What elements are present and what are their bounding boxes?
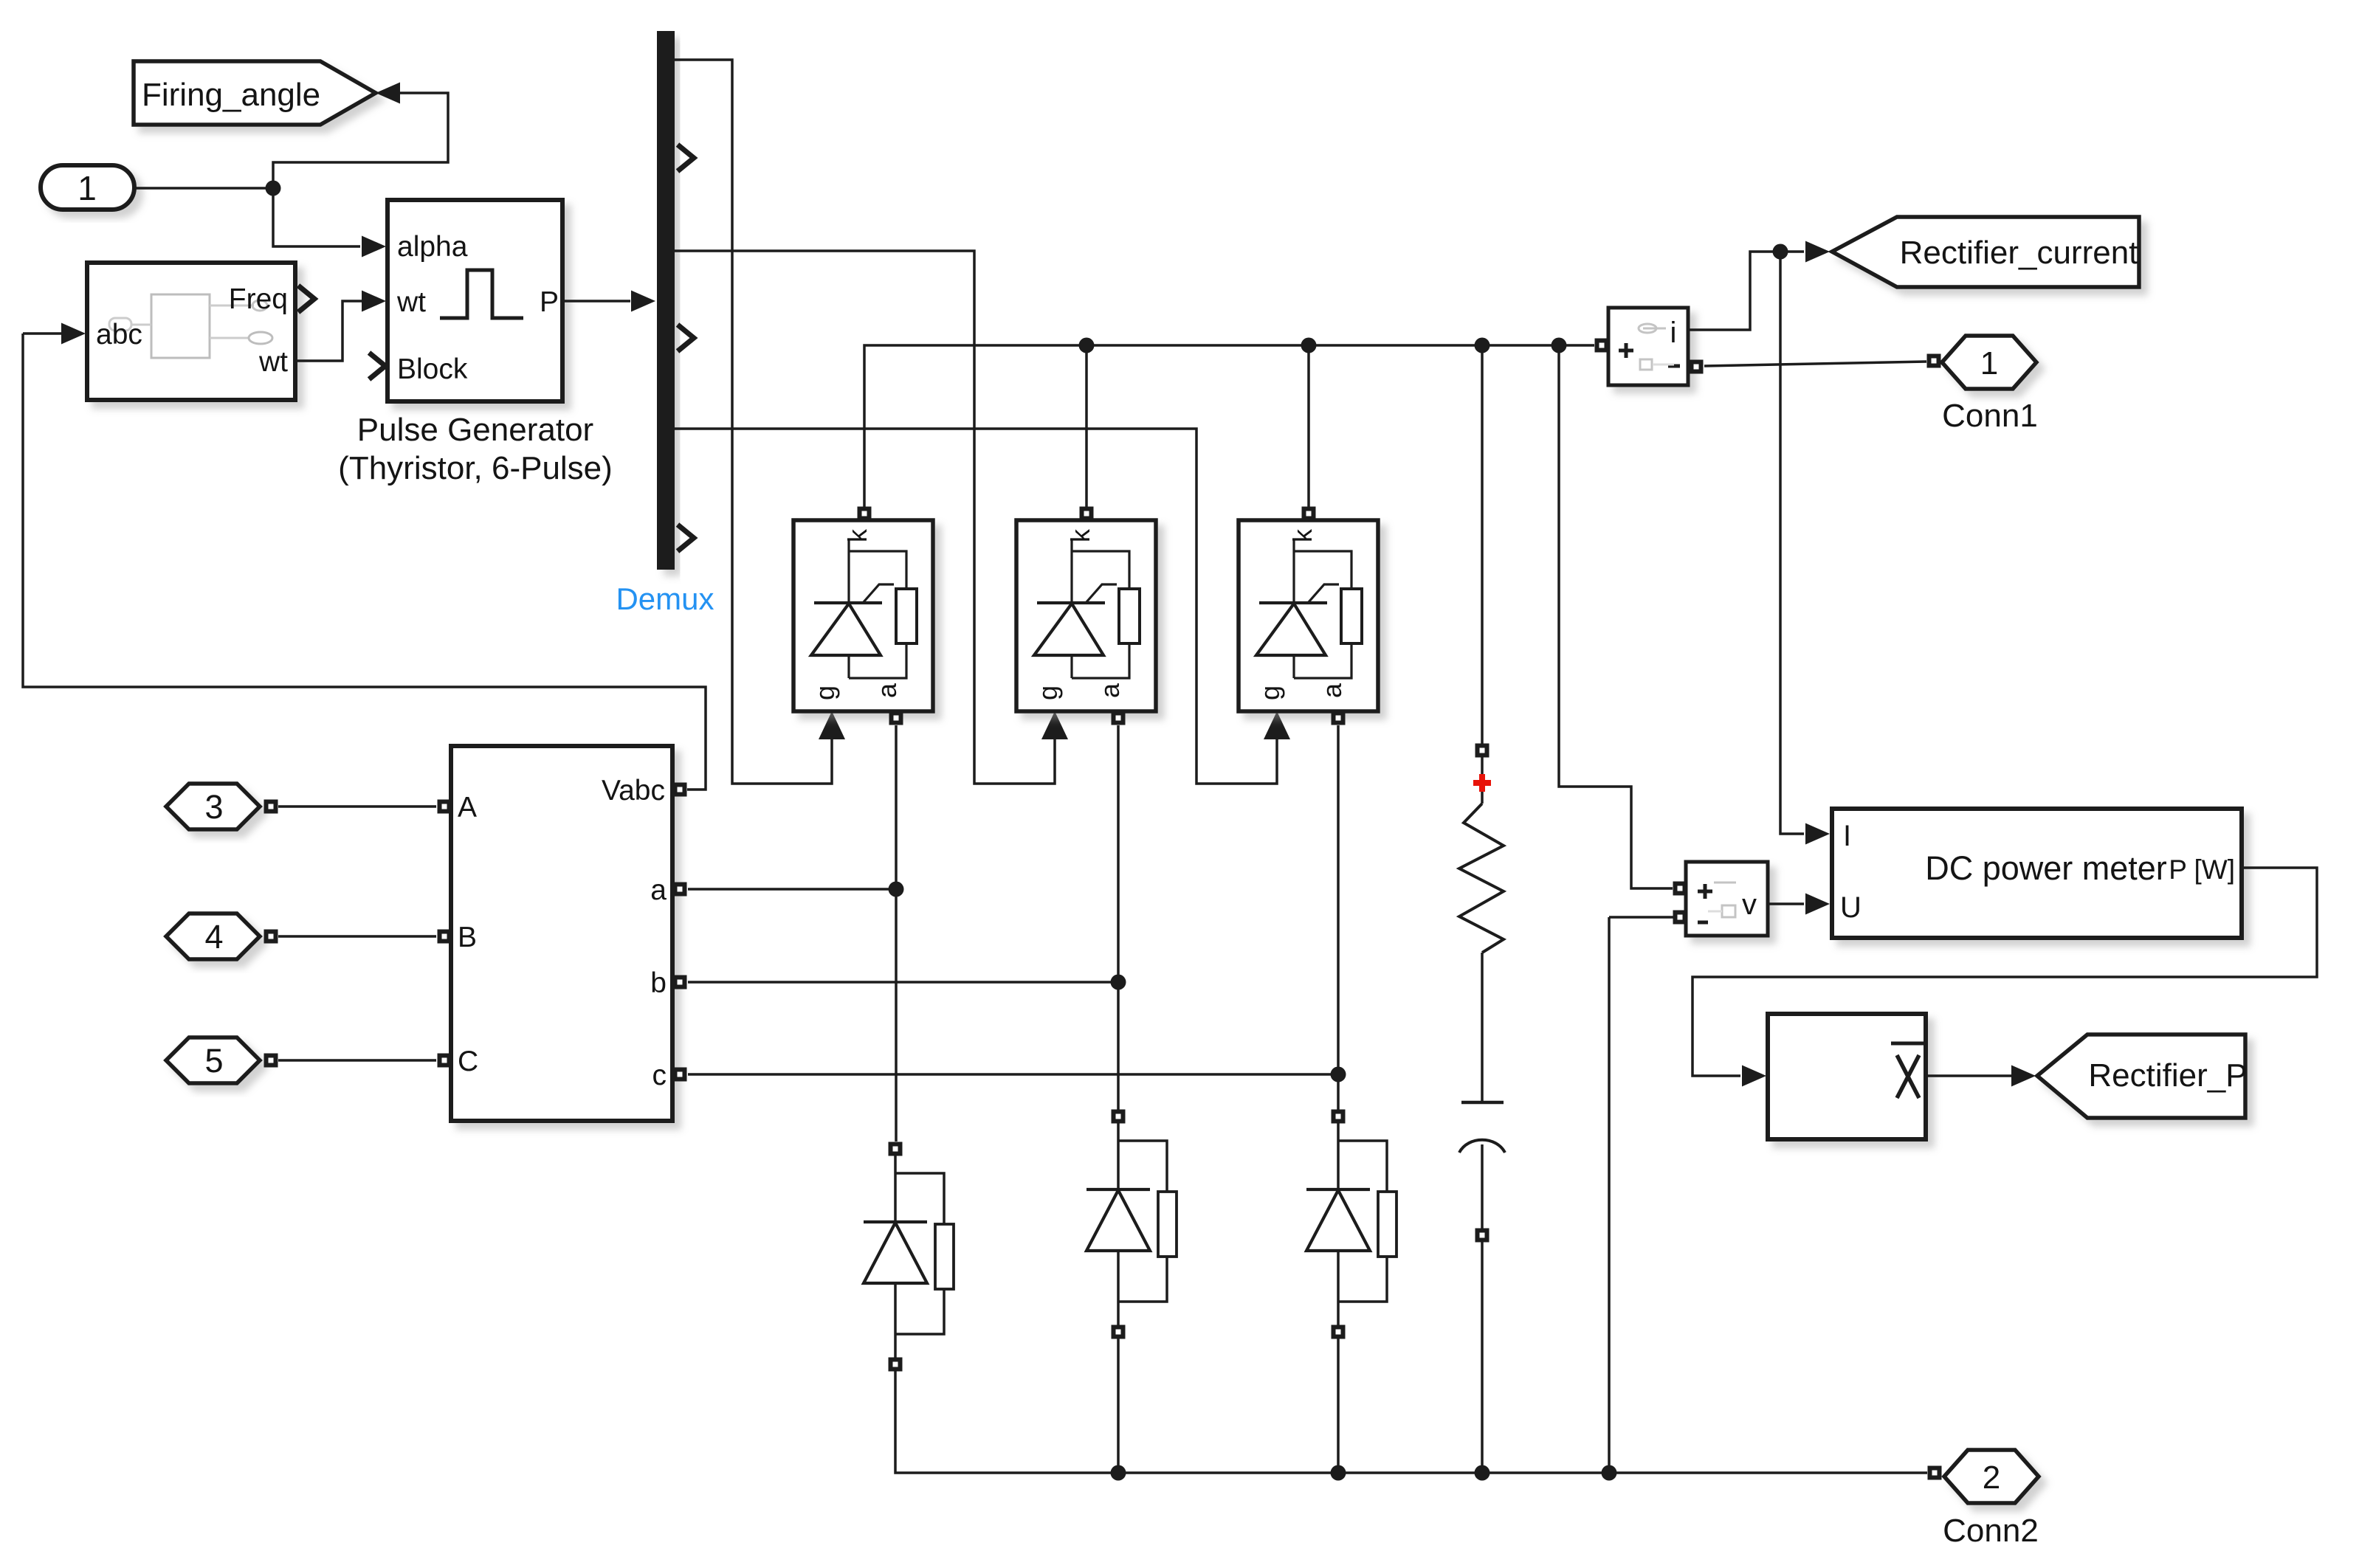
svg-text:a: a [650,874,667,906]
wire: i to DC power meter I [1780,252,1804,834]
port C [438,1054,452,1068]
port c [673,1068,687,1082]
wire: wt to Pulse Generator wt [295,301,363,361]
port marker of 4 [264,930,278,944]
wire: i output to Rectifier_current [1688,252,1804,330]
label Conn1 [1942,398,2038,434]
wire: output b to T2 anode line [688,981,1118,984]
wire: output a to T1 anode line [688,888,896,891]
subsystem block three-phase source/measurement A B C [451,746,672,1121]
svg-text:C: C [458,1046,478,1077]
junction bus-load [1475,338,1490,353]
connection port 3 [166,784,260,829]
port marker of 3 [264,800,278,814]
wire: bus to voltage measurement + [1559,345,1673,888]
svg-text:g: g [1033,685,1063,700]
wire: current measurement - to Conn1 [1704,362,1926,366]
svg-text:U: U [1840,891,1862,924]
svg-text:Demux: Demux [616,581,714,616]
arrowhead into Firing_angle [376,83,400,104]
wire: bus drop to T2 k [1085,345,1088,507]
Demux block (black bar) [657,31,675,570]
svg-text:B: B [458,922,477,953]
demux unconnected output 6 [678,525,694,551]
wire: junction to alpha input [273,190,360,246]
svg-text:k: k [842,528,872,542]
svg-text:A: A [458,792,477,823]
svg-text:5: 5 [204,1042,223,1080]
port marker of Conn1 [1927,354,1941,368]
wire: P output to Demux [562,300,630,303]
junction a-T1 [889,882,904,897]
label Demux [616,581,714,616]
voltage measurement block [1686,862,1768,936]
svg-text:DC power meter: DC power meter [1925,849,2167,887]
svg-text:a: a [1317,683,1347,698]
unconnected Freq output chevron [298,286,314,312]
junction rail-D3 [1331,1465,1346,1481]
wire: Mean output to Rectifier_P [1928,1074,2012,1077]
arrowhead into T3 gate [1264,711,1290,739]
port - of voltage measurement [1673,911,1687,925]
wire: DC- rail from D1 to Conn2 [895,1371,1927,1473]
port a of T3 [1332,711,1346,725]
wire: cathode bus k1 to current measurement [864,345,1594,507]
svg-text:Rectifier_current: Rectifier_current [1900,235,2138,271]
wire: inport 1 to junction [134,187,272,190]
port k of T1 [858,507,872,521]
junction rail-D2 [1111,1465,1126,1481]
wire: port 3 to A [278,805,436,808]
bottom port of RLC load [1475,1229,1490,1243]
top port of D3 [1332,1110,1346,1124]
bottom port of D3 [1332,1325,1346,1339]
svg-text:Firing_angle: Firing_angle [142,77,320,113]
svg-text:wt: wt [258,346,288,378]
thyristor block T2 [1016,520,1156,711]
arrowhead into Rectifier_P [2011,1066,2036,1087]
svg-text:a: a [1095,683,1125,698]
unconnected Block input chevron [369,353,385,379]
junction rail-vmeas [1602,1465,1617,1481]
arrowhead into Mean [1742,1066,1766,1087]
block Pulse Generator (Thyristor 6-Pulse) [388,200,562,401]
top port of D2 [1112,1110,1126,1124]
svg-text:i: i [1670,317,1677,349]
subsystem block abc-Freq-wt (frequency measurement) [87,263,295,400]
port k of T2 [1080,507,1094,521]
wire: D2 to rail [1117,1339,1120,1473]
svg-text:Vabc: Vabc [602,775,665,807]
svg-text:Rectifier_P: Rectifier_P [2088,1057,2247,1094]
wire: into abc input [23,332,65,335]
arrowhead into wt [362,291,386,312]
svg-text:Freq: Freq [229,283,288,315]
wire: port 4 to B [278,935,436,938]
port marker of 5 [264,1054,278,1068]
port + of voltage measurement [1673,882,1687,896]
goto tag Rectifier_current [1832,217,2139,287]
svg-text:Conn2: Conn2 [1943,1513,2039,1549]
port B [438,930,452,944]
wire: load bottom to rail [1481,1242,1484,1473]
Mean block (X bar) [1768,1014,1926,1139]
top port of D1 [889,1142,903,1156]
arrowhead into abc [61,323,86,345]
wire: demux output 5 to thyristor T3 gate [675,429,1277,784]
arrowhead into U [1805,894,1830,915]
svg-text:k: k [1287,528,1318,542]
svg-text:I: I [1843,820,1851,852]
svg-text:1: 1 [78,169,97,207]
wire: v output to U [1768,902,1804,905]
wire: bus drop to RLC load [1481,345,1484,744]
port - of current measurement [1690,360,1704,374]
diode D2 with snubber resistor [1086,1123,1177,1325]
port b [673,975,687,990]
wire: demux output 1 to thyristor T1 gate [675,60,832,784]
diode D1 with snubber resistor [864,1156,954,1358]
port a of T1 [889,711,903,725]
connection port Conn2 [1944,1450,2039,1503]
wire: T3 anode down to diode D3 [1337,725,1340,1110]
current measurement block [1608,308,1688,385]
inport 1 [41,165,134,210]
bottom port of D1 [889,1358,903,1372]
wire: T2 anode down to diode D2 [1117,725,1120,1110]
demux unconnected output 4 [678,325,694,351]
arrowhead into alpha [362,236,386,258]
arrowhead into T2 gate [1041,711,1068,739]
port k of T3 [1302,507,1316,521]
junction c-T3 [1331,1067,1346,1082]
svg-text:4: 4 [204,918,223,956]
svg-text:Conn1: Conn1 [1942,398,2038,434]
junction bus-vmeas [1552,338,1567,353]
wire: Vabc output to abc input [23,334,706,790]
wire: junction to Firing_angle tag [273,93,448,185]
svg-text:(Thyristor, 6-Pulse): (Thyristor, 6-Pulse) [338,450,613,486]
svg-text:1: 1 [1980,345,1998,381]
svg-text:Pulse Generator: Pulse Generator [357,412,593,448]
wire: port 5 to C [278,1059,436,1062]
arrowhead into Demux [631,291,655,312]
junction b-T2 [1111,975,1126,990]
arrowhead into Rectifier_current [1805,241,1830,263]
wire: output c to T3 anode line [688,1073,1338,1076]
svg-text:c: c [652,1060,667,1091]
port + of current measurement [1595,339,1609,353]
svg-text:P: P [540,286,559,318]
wire: T1 anode down to diode D1 [895,725,898,1142]
wire: voltage measurement - to rail [1608,917,1611,1473]
svg-text:2: 2 [1983,1460,2000,1496]
wire: demux output 3 to thyristor T2 gate [675,251,1055,784]
label Pulse Generator caption [338,412,613,486]
connection port 4 [166,913,260,959]
label Conn2 [1943,1513,2039,1549]
svg-text:g: g [1255,685,1285,700]
svg-text:b: b [650,967,667,999]
demux unconnected output 2 [678,145,694,171]
wire: voltage - stub [1609,916,1673,919]
svg-text:abc: abc [96,319,142,350]
goto tag Rectifier_P [2037,1035,2248,1118]
junction i [1773,244,1788,260]
junction rail-load [1475,1465,1490,1481]
diode D3 with snubber resistor [1306,1123,1397,1325]
junction bus-T2k [1079,338,1095,353]
svg-text:wt: wt [396,286,426,318]
svg-text:3: 3 [204,788,223,826]
svg-text:g: g [810,685,840,700]
svg-text:v: v [1742,888,1757,921]
wire: bus drop to T3 k [1307,345,1310,507]
subsystem block DC power meter [1832,809,2242,938]
wire: P output to Mean block [1692,868,2317,1076]
svg-text:k: k [1065,528,1095,542]
series RLC branch load [1459,757,1505,1229]
wire: D3 to rail [1337,1339,1340,1473]
junction node alpha [266,181,281,196]
port Vabc [673,783,687,797]
connection port 5 [166,1037,260,1083]
bottom port of D2 [1112,1325,1126,1339]
thyristor block T1 [793,520,933,711]
goto tag Firing_angle [134,61,376,125]
svg-text:Block: Block [397,353,468,385]
thyristor block T3 [1239,520,1378,711]
port marker of Conn2 [1928,1466,1942,1480]
top port of RLC load [1475,744,1490,758]
connection port Conn1 [1942,336,2036,389]
svg-text:alpha: alpha [397,231,468,263]
svg-text:a: a [872,683,902,698]
svg-text:P [W]: P [W] [2169,854,2235,885]
arrowhead into I [1805,823,1830,845]
arrowhead into T1 gate [819,711,845,739]
port a [673,883,687,897]
port a of T2 [1112,711,1126,725]
port A [438,800,452,814]
junction bus-T3k [1301,338,1317,353]
